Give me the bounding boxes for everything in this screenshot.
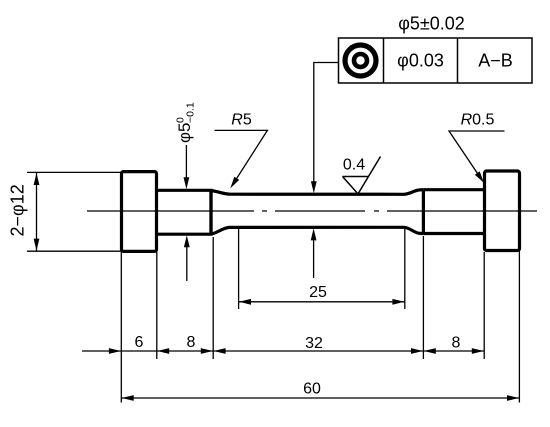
extension line x=238 (25 dim left) <box>238 229 240 309</box>
concentricity symbol <box>345 45 376 76</box>
svg-text:φ0.03: φ0.03 <box>397 51 444 71</box>
svg-text:25: 25 <box>309 284 327 301</box>
dimension row line y=351 <box>82 350 484 352</box>
extension line x=405 (25 dim right) <box>404 229 406 309</box>
svg-text:A−B: A−B <box>478 51 513 71</box>
extension line x=519 (60 dim right) <box>518 251 520 403</box>
phi5 up arrow below grip <box>186 245 188 281</box>
svg-text:60: 60 <box>303 381 321 398</box>
dimension 2-phi12 line <box>36 172 38 251</box>
arrowheads 2-phi12 <box>34 173 40 185</box>
shoulder face left <box>209 190 212 234</box>
gauge section top outline with R5 fillets <box>211 190 423 195</box>
svg-text:8: 8 <box>187 334 196 351</box>
left collar (phi12 head) <box>122 172 157 252</box>
svg-text:0.4: 0.4 <box>343 157 365 174</box>
left grip section (phi5 with tolerance) <box>158 190 211 234</box>
R0.5 leader line <box>449 131 505 176</box>
surface roughness symbol <box>343 157 381 194</box>
extension line x=484 (8 dim right) <box>483 252 485 359</box>
arrowheads 25 dim <box>239 299 251 305</box>
up arrow at gauge bottom <box>313 238 315 278</box>
arrowheads 60 dim <box>122 395 134 401</box>
R5 leader line <box>215 130 268 183</box>
arrowheads 8 dim right <box>424 348 436 354</box>
extension line x=423 (32 / 8 dims) <box>422 236 424 359</box>
dimension 25 line <box>239 301 405 303</box>
label phi5 0/-0.1 (rotated) <box>175 102 197 143</box>
leader line phi5 down arrow <box>185 145 187 181</box>
extension line top for 2-phi12 <box>27 171 122 173</box>
arrowheads 32 dim <box>214 348 226 354</box>
arrowheads 8 dim <box>157 348 169 354</box>
svg-text:8: 8 <box>452 335 461 352</box>
dimension 60 line <box>121 397 519 399</box>
svg-text:2−φ12: 2−φ12 <box>8 184 28 236</box>
svg-text:φ5: φ5 <box>175 123 194 143</box>
leader from frame to gauge section <box>314 63 339 185</box>
right grip section <box>423 190 484 234</box>
gauge section bottom outline with R5 fillets <box>211 227 423 234</box>
extension line x=121 (6 / 60 dims) <box>120 252 122 403</box>
svg-text:φ5±0.02: φ5±0.02 <box>398 14 465 34</box>
svg-text:R0.5: R0.5 <box>461 112 495 129</box>
svg-text:6: 6 <box>135 334 144 351</box>
right collar (phi12 head) <box>485 171 520 251</box>
svg-text:−0.1: −0.1 <box>185 102 197 123</box>
extension line bottom for 2-phi12 <box>27 250 122 252</box>
center line / axis <box>87 210 537 212</box>
feature control frame box <box>339 38 533 83</box>
shoulder face right <box>422 190 425 234</box>
extension line x=157 (6 / 8 dims) <box>156 252 158 359</box>
extension line x=213 (8 / 32 dims) <box>212 237 214 359</box>
svg-text:R5: R5 <box>231 112 252 129</box>
svg-text:32: 32 <box>305 335 323 352</box>
